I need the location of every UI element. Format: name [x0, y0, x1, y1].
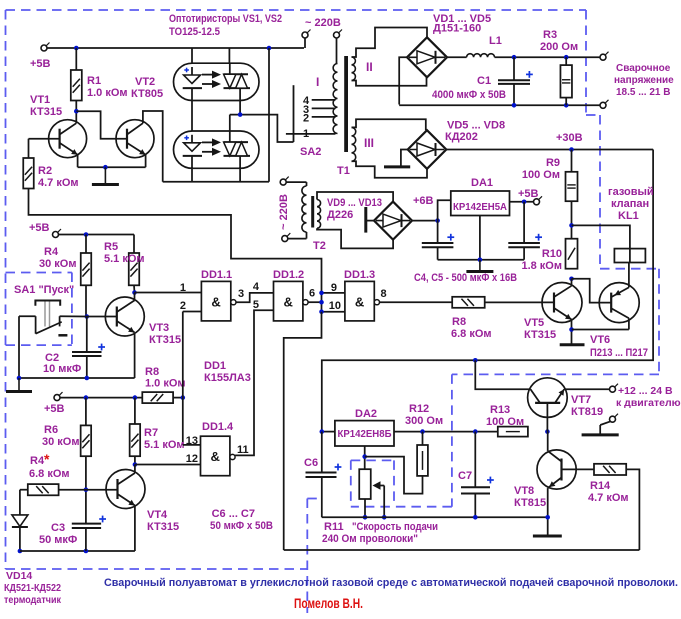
node col 6 [319, 300, 324, 305]
svg-text:КТ315: КТ315 [147, 521, 179, 533]
wire tap3 [312, 107, 336, 109]
svg-text:+6В: +6В [413, 195, 434, 207]
svg-text:DD1.4: DD1.4 [202, 421, 234, 433]
label DD1 [204, 360, 251, 384]
gate DD1.3 [344, 269, 380, 321]
wire top rail [47, 47, 304, 49]
resistor R8b [451, 297, 492, 340]
node thyristor mid [238, 112, 243, 117]
wire VT3 emitter [19, 333, 135, 379]
node VD14 gnd [18, 549, 23, 554]
relay KL1 [608, 186, 654, 263]
wire DA2 rail [322, 431, 498, 433]
wire VT5 collector [571, 279, 573, 286]
node C7 top [473, 429, 478, 434]
wire DA1 in [438, 200, 451, 220]
node VT4 base [84, 487, 89, 492]
svg-text:R6: R6 [44, 424, 58, 436]
svg-text:R8: R8 [145, 366, 159, 378]
svg-text:С1: С1 [477, 75, 491, 87]
pin 8 [381, 288, 387, 300]
svg-text:КТ805: КТ805 [131, 88, 163, 100]
svg-text:100 Ом: 100 Ом [522, 169, 560, 181]
optothyristor VS2 [174, 131, 260, 168]
resistor R14 [588, 464, 629, 504]
svg-text:1.8 кОм: 1.8 кОм [521, 260, 562, 272]
wire DD13 out [380, 301, 453, 303]
svg-text:VT4: VT4 [147, 509, 168, 521]
svg-text:Сварочное: Сварочное [616, 63, 671, 74]
wire R9 R10 [571, 201, 573, 239]
node DA1 gnd [478, 257, 483, 262]
wire R1 bottom [75, 101, 77, 124]
node R6 top [84, 395, 89, 400]
wire VT2 base [76, 111, 127, 139]
transistor VT8 [514, 450, 576, 509]
terminal +5V bot [44, 392, 65, 415]
wire KL1 top [572, 225, 630, 248]
label VD14 [4, 570, 62, 606]
label tap 4 [303, 95, 310, 107]
svg-text:Сварочный полуавтомат в углеки: Сварочный полуавтомат в углекислотной га… [104, 577, 678, 589]
svg-text:клапан: клапан [611, 198, 649, 210]
svg-text:4.7 кОм: 4.7 кОм [38, 177, 79, 189]
gate DD1.2 [273, 269, 308, 321]
wire VT3 base left [87, 316, 117, 318]
node C7 gnd [473, 515, 478, 520]
wire VT4 base [59, 489, 118, 491]
resistor R3 [540, 29, 578, 105]
svg-text:18.5 ... 21 В: 18.5 ... 21 В [616, 87, 670, 98]
wire R4t left [20, 490, 28, 515]
svg-text:4000 мкФ х 50В: 4000 мкФ х 50В [432, 89, 506, 101]
ground motor [582, 433, 619, 436]
svg-text:6.8 кОм: 6.8 кОм [451, 328, 492, 340]
svg-text:1: 1 [303, 128, 309, 140]
svg-text:5.1 кОм: 5.1 кОм [104, 253, 145, 265]
terminal T2 a [280, 177, 306, 186]
wire T2 sec bottom [317, 228, 393, 248]
svg-text:III: III [364, 136, 374, 150]
svg-text:КТ819: КТ819 [571, 406, 603, 418]
node VT8 emitter [545, 515, 550, 520]
svg-text:напряжение: напряжение [614, 75, 674, 86]
node VT1 collector [74, 109, 79, 114]
svg-text:30 кОм: 30 кОм [39, 258, 77, 270]
pin 9 [331, 282, 337, 294]
pin 4 [253, 281, 260, 293]
wire +30V down right [322, 150, 653, 432]
svg-text:Оптотиристоры VS1, VS2: Оптотиристоры VS1, VS2 [169, 13, 282, 25]
resistor R13 [486, 404, 528, 437]
resistor R6 [42, 398, 91, 457]
svg-text:~ 220В: ~ 220В [305, 17, 341, 29]
regulator DA2 [335, 408, 394, 446]
SA1 module dashed box [6, 273, 72, 346]
node motor rail [473, 358, 478, 363]
wire bridge1 plus [447, 56, 467, 58]
svg-text:+5В: +5В [44, 403, 65, 415]
transistor VT3 [105, 297, 181, 346]
svg-text:R7: R7 [144, 427, 158, 439]
svg-text:KL1: KL1 [618, 210, 639, 222]
node VT5 emitter [569, 327, 574, 332]
capacitor C1 [432, 57, 533, 105]
label C4 C5 [414, 272, 517, 284]
svg-text:R2: R2 [38, 165, 52, 177]
terminal 220V b [334, 30, 343, 64]
transformer T1 core [344, 56, 348, 152]
node VT4 coll [133, 462, 138, 467]
label author [294, 596, 363, 611]
pin 12 [186, 453, 198, 465]
wire VT3 coll up [134, 293, 136, 301]
label tap 3 [303, 104, 309, 116]
wire DA1 out [510, 188, 539, 202]
terminal +5V DA1 [534, 196, 543, 205]
wire R14 to rail [626, 469, 639, 550]
svg-text:50 мкФ х 50В: 50 мкФ х 50В [210, 520, 273, 532]
wire +5V mid [59, 234, 135, 236]
node +30V R9 [569, 147, 574, 152]
svg-text:R1: R1 [87, 75, 101, 87]
svg-text:газовый: газовый [608, 186, 654, 198]
node DA1 in [435, 218, 440, 223]
wire R11 bottom [364, 499, 366, 517]
ground VT8 [533, 535, 562, 538]
wire SA1 left down [18, 316, 20, 378]
wire VS2 cathode [239, 167, 241, 182]
diode VD14 [12, 515, 28, 551]
potentiometer R11 [359, 469, 384, 517]
capacitor C4 [422, 221, 454, 260]
svg-text:КТ815: КТ815 [514, 497, 546, 509]
svg-text:С4, С5 - 500 мкФ х 16В: С4, С5 - 500 мкФ х 16В [414, 272, 517, 284]
wire bridge3 out [413, 195, 438, 221]
svg-text:DD1: DD1 [204, 360, 226, 372]
wire DD11 out [236, 293, 274, 302]
svg-text:1.0 кОм: 1.0 кОм [145, 378, 186, 390]
switch SA2 [286, 85, 336, 158]
capacitor C2 [43, 317, 105, 379]
wire VT5 emitter [571, 320, 573, 345]
wire R5 VT3 coll [133, 285, 136, 292]
wire DD13 in b [322, 311, 345, 313]
svg-text:Т1: Т1 [337, 165, 350, 177]
svg-text:5.1 кОм: 5.1 кОм [144, 439, 185, 451]
svg-text:R10: R10 [542, 248, 562, 260]
resistor R4t [28, 451, 70, 495]
pin 3 [238, 288, 244, 300]
wire VT7 coll feed [475, 360, 530, 389]
node VT5 collector [569, 277, 574, 282]
ground VT1 VT2 [92, 167, 119, 184]
node top rail R1 [74, 46, 79, 51]
svg-text:VT7: VT7 [571, 394, 591, 406]
resistor R4 [39, 235, 91, 286]
gate DD1.4 [201, 421, 236, 476]
svg-text:К155ЛА3: К155ЛА3 [204, 372, 251, 384]
wire VT8 emitter [547, 488, 549, 535]
wire VS1 cathode [239, 101, 241, 115]
wire VT2 emitter [145, 155, 147, 168]
node C2 gnd [85, 376, 90, 381]
terminal +5V top [30, 43, 51, 71]
svg-text:DD1.3: DD1.3 [344, 269, 375, 281]
bottom module dashed boundary [307, 499, 322, 614]
transformer T2 primary [302, 182, 307, 239]
svg-text:ТО125-12.5: ТО125-12.5 [169, 26, 220, 38]
svg-text:VT3: VT3 [149, 322, 169, 334]
svg-text:VT6: VT6 [590, 334, 610, 346]
label optothyristors [169, 13, 282, 38]
label tap 2 [303, 113, 309, 125]
wire VS1 to VS2 led [191, 101, 193, 132]
wire emitter rail [78, 166, 146, 168]
pin 6 [309, 288, 315, 300]
resistor R12 [405, 403, 443, 476]
terminal motor plus [610, 384, 681, 409]
svg-text:DA1: DA1 [471, 177, 493, 189]
svg-text:С6: С6 [304, 457, 318, 469]
svg-text:12: 12 [186, 453, 198, 465]
svg-text:300 Ом: 300 Ом [405, 415, 443, 427]
node R11 wiper gnd [382, 515, 387, 520]
svg-text:R9: R9 [546, 157, 560, 169]
svg-text:Помелов В.Н.: Помелов В.Н. [294, 596, 363, 611]
svg-text:VT8: VT8 [514, 485, 534, 497]
wire III top [352, 119, 426, 130]
svg-text:3: 3 [238, 288, 244, 300]
svg-text:R3: R3 [543, 29, 557, 41]
wire VT6 emitter [629, 249, 630, 288]
wire VT2 collector [143, 111, 163, 182]
wire VT7 emitter out [564, 388, 609, 390]
svg-text:R4: R4 [44, 246, 59, 258]
svg-text:DA2: DA2 [355, 408, 377, 420]
svg-text:Т2: Т2 [313, 240, 326, 252]
wire R8a right [173, 397, 183, 399]
svg-text:&: & [211, 294, 220, 309]
svg-text:200 Ом: 200 Ом [540, 41, 578, 53]
wire VT1 base [29, 139, 60, 158]
optothyristor VS1 [174, 63, 260, 100]
node R4 top [84, 232, 89, 237]
node col 10 [319, 309, 324, 314]
svg-text:Д226: Д226 [327, 209, 353, 221]
svg-text:4: 4 [253, 281, 260, 293]
wire DD14 out [235, 310, 273, 455]
svg-text:10: 10 [329, 300, 341, 312]
wire L1 to output [495, 56, 601, 58]
wire DA1 gnd rail [438, 216, 524, 260]
resistor R7 [130, 398, 185, 457]
node C1 top [512, 55, 517, 60]
svg-text:R14: R14 [590, 480, 611, 492]
svg-text:~ 220В: ~ 220В [278, 194, 290, 230]
wire VT8 coll [547, 432, 549, 451]
node col 9 [319, 291, 324, 296]
ground VT5 [560, 343, 585, 346]
label ~220V top [305, 17, 341, 29]
label R11 [322, 521, 438, 545]
transistor VT6 [590, 283, 648, 359]
terminal weld minus [600, 100, 609, 109]
wire weld bottom rail [399, 104, 600, 106]
wire II bottom [352, 77, 427, 86]
terminal T2 b [282, 233, 307, 242]
wire +5V bot [60, 397, 142, 399]
svg-text:+5В: +5В [30, 58, 51, 70]
svg-text:100 Ом: 100 Ом [486, 416, 524, 428]
label weld voltage [614, 63, 674, 98]
svg-text:VD9 ... VD13: VD9 ... VD13 [327, 197, 382, 209]
svg-text:КР142ЕН5А: КР142ЕН5А [453, 201, 507, 213]
pin 5 [253, 299, 259, 311]
capacitor C3 [39, 516, 106, 551]
transformer T2 secondary [317, 200, 321, 229]
wire DD14 pin12 [135, 464, 201, 466]
svg-text:+12 ... 24 В: +12 ... 24 В [618, 385, 673, 397]
capacitor C7 [458, 432, 494, 518]
node DA2 adj [362, 454, 367, 459]
regulator DA1 [451, 177, 510, 216]
svg-text:&: & [355, 294, 364, 309]
svg-text:240 Ом проволоки": 240 Ом проволоки" [322, 533, 418, 545]
node R12 top [420, 429, 425, 434]
wire VS2 top [229, 115, 231, 131]
wire R2 to logic [29, 189, 322, 312]
pin 1 [180, 282, 186, 294]
terminal motor minus [600, 414, 618, 435]
svg-text:I: I [316, 75, 319, 89]
svg-text:КД521-КД522: КД521-КД522 [4, 582, 61, 594]
node R3 bottom [564, 103, 569, 108]
svg-text:5: 5 [253, 299, 259, 311]
wire T2 sec top [317, 192, 393, 202]
svg-text:4.7 кОм: 4.7 кОм [588, 492, 629, 504]
pin 13 [186, 435, 198, 447]
wire bottom rail left [20, 550, 135, 552]
wire col down [284, 312, 322, 550]
wire R8b to VT5 [485, 301, 554, 303]
svg-text:VD14: VD14 [6, 570, 32, 582]
svg-text:"Скорость подачи: "Скорость подачи [352, 521, 438, 533]
node DD14 col [181, 395, 186, 400]
resistor R1 [71, 48, 128, 101]
transistor VT2 [116, 76, 163, 158]
wire VS1 led anode [191, 48, 193, 63]
svg-text:DD1.2: DD1.2 [273, 269, 304, 281]
wire DD12 out [308, 301, 322, 303]
svg-text:R5: R5 [104, 241, 118, 253]
wire II top [352, 28, 428, 58]
svg-text:VT5: VT5 [524, 317, 544, 329]
label SA1 [14, 284, 74, 296]
terminal weld plus [600, 52, 609, 61]
svg-text:50 мкФ: 50 мкФ [39, 534, 77, 546]
R11 module dashed box [351, 460, 394, 506]
wire tap2 [312, 116, 336, 118]
node C3 gnd [84, 549, 89, 554]
transformer T1 winding III [352, 127, 375, 161]
label C6C7 [210, 508, 273, 532]
wire VS2 led cathode [191, 167, 193, 182]
transformer T2 core [311, 196, 314, 228]
wire thyristor mid rail [230, 115, 294, 142]
svg-text:КД202: КД202 [445, 131, 478, 143]
wire bottom long rail [284, 549, 640, 551]
wire DD13 in a [322, 292, 345, 294]
wire DD11 pin2 [183, 311, 202, 313]
bridge rectifier VD9-VD13 [327, 197, 412, 240]
svg-text:+30В: +30В [556, 132, 583, 144]
svg-text:VT2: VT2 [135, 76, 155, 88]
svg-text:R8: R8 [452, 316, 466, 328]
svg-text:SA1 "Пуск": SA1 "Пуск" [14, 284, 74, 296]
svg-text:R11: R11 [324, 521, 344, 533]
transistor VT4 [106, 470, 179, 534]
wire 220V drop [268, 48, 270, 182]
label T1 [337, 165, 350, 177]
label main title [104, 577, 678, 589]
node R3 top [564, 55, 569, 60]
pin 10 [329, 300, 341, 312]
transformer T1 winding I [316, 64, 338, 134]
svg-text:2: 2 [303, 113, 309, 125]
svg-text:С6 ... С7: С6 ... С7 [212, 508, 255, 520]
svg-text:SA2: SA2 [300, 146, 321, 158]
wire DA2 adj [364, 446, 366, 469]
label tap 1 [303, 128, 309, 140]
svg-text:11: 11 [237, 444, 249, 456]
wire R4 VT3 base [85, 285, 87, 316]
svg-text:8: 8 [381, 288, 387, 300]
wire tap4 [312, 99, 336, 101]
svg-text:10 мкФ: 10 мкФ [43, 363, 81, 375]
svg-text:КТ315: КТ315 [149, 334, 181, 346]
svg-text:DD1.1: DD1.1 [201, 269, 232, 281]
svg-text:R12: R12 [409, 403, 429, 415]
wire bridge1 minus [399, 57, 407, 104]
node KL1 tap [569, 223, 574, 228]
svg-text:L1: L1 [489, 35, 502, 47]
wire VT1 emitter [77, 155, 79, 168]
svg-text:КТ315: КТ315 [524, 329, 556, 341]
resistor R8a [142, 366, 185, 403]
switch SA1 [19, 301, 87, 336]
transistor VT1 [30, 94, 87, 158]
node top rail right [267, 46, 272, 51]
capacitor C5 [508, 202, 542, 260]
inductor L1 [467, 35, 502, 57]
svg-text:&: & [284, 294, 293, 309]
resistor R9 [522, 150, 578, 202]
label T2 [313, 240, 326, 252]
svg-text:VD5 ... VD8: VD5 ... VD8 [447, 120, 505, 132]
transistor VT7 [528, 378, 603, 432]
gate DD1.1 [201, 269, 236, 321]
svg-text:II: II [366, 60, 373, 74]
node gnd left [17, 376, 22, 381]
wire DD14 pin13 [183, 444, 201, 446]
node C1 bottom [512, 103, 517, 108]
svg-text:VT1: VT1 [30, 94, 50, 106]
svg-text:+5В: +5В [29, 222, 50, 234]
wire R6 bottom [85, 456, 87, 523]
resistor R5 [104, 235, 145, 286]
svg-text:Д151-160: Д151-160 [433, 23, 481, 35]
